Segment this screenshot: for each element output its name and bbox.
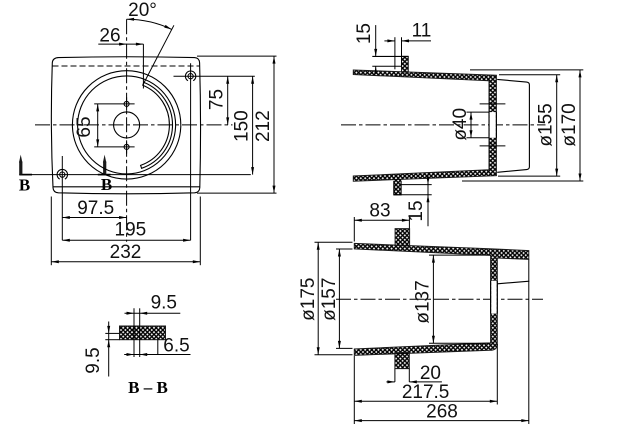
svg-text:ø40: ø40 (450, 108, 471, 141)
boss hole lines (394, 37, 396, 69)
horizontal centerline front view (35, 124, 233, 126)
wall hole gap bottom view (491, 281, 497, 314)
dimension o157 (336, 248, 353, 250)
B-B left extension lines (105, 332, 119, 334)
taper line (497, 281, 529, 284)
dimension 83 (354, 219, 409, 221)
corner hole top-right (188, 74, 193, 79)
top right view centerline (341, 124, 546, 126)
front view outline (51, 57, 200, 194)
svg-text:26: 26 (99, 25, 120, 46)
B-B slot lines (133, 308, 135, 357)
svg-text:ø157: ø157 (319, 278, 340, 321)
bottom right view centerline (336, 298, 543, 300)
wall hole gap (490, 112, 496, 138)
svg-text:65: 65 (74, 116, 95, 137)
dimension 11 (384, 40, 395, 42)
svg-text:195: 195 (115, 220, 147, 241)
inner boss circle (78, 76, 176, 174)
bottom face edge line (53, 186, 200, 188)
svg-text:B – B: B – B (128, 378, 168, 397)
dimension o170 (470, 69, 583, 71)
svg-text:15: 15 (406, 200, 427, 221)
top boss section (402, 56, 409, 72)
svg-text:11: 11 (412, 20, 432, 41)
svg-text:ø155: ø155 (536, 103, 557, 146)
dimension 268 (354, 420, 529, 422)
svg-text:ø137: ø137 (413, 280, 434, 323)
svg-text:20: 20 (420, 363, 441, 384)
small hole bottom (124, 144, 129, 149)
dimension 6.5 bottom (124, 354, 190, 356)
dimension 217.5 (354, 400, 497, 402)
dimension o40 (467, 111, 490, 113)
wall screw hole bottom (480, 145, 506, 147)
bottom boss section (394, 179, 401, 195)
svg-text:212: 212 (253, 110, 274, 142)
dimension o175 (315, 241, 353, 243)
dimension o155 (499, 74, 560, 76)
arc slot (141, 82, 173, 168)
svg-text:20°: 20° (128, 0, 157, 21)
bottom right view shell section (354, 243, 529, 355)
dimension o137 (429, 254, 491, 256)
section arrow B left (19, 155, 22, 163)
svg-text:83: 83 (369, 201, 390, 222)
svg-text:217.5: 217.5 (402, 382, 450, 403)
svg-text:268: 268 (426, 401, 458, 422)
svg-text:9.5: 9.5 (151, 293, 177, 314)
svg-text:15: 15 (354, 23, 375, 44)
dimension 20 (386, 381, 395, 383)
far end projection (497, 79, 529, 172)
dimension 9.5 top (125, 312, 181, 314)
bottom boss bottom view (395, 352, 409, 368)
svg-text:150: 150 (231, 110, 252, 142)
dimension 232 (51, 261, 200, 263)
far end edge extension (528, 259, 530, 424)
svg-text:6.5: 6.5 (163, 336, 189, 357)
top right view shell section (353, 70, 496, 181)
wall face extension (496, 344, 498, 405)
corner hole bottom-left (60, 172, 65, 177)
dimension 65 (97, 104, 99, 147)
section cut line B-B (19, 174, 251, 176)
top boss bottom view (395, 229, 410, 246)
dimension 150 (252, 76, 254, 174)
svg-text:ø175: ø175 (298, 278, 319, 321)
svg-text:75: 75 (206, 89, 227, 110)
section arrow B mid (103, 155, 106, 163)
dimension 97.5 (62, 217, 126, 219)
dimension 212 (273, 56, 275, 193)
svg-text:232: 232 (110, 242, 142, 263)
wall screw hole top (480, 103, 506, 105)
dimension 195 (62, 239, 190, 241)
svg-text:97.5: 97.5 (77, 198, 114, 219)
dimension 15 bottom (427, 174, 429, 226)
svg-text:B: B (19, 176, 30, 195)
svg-text:ø170: ø170 (559, 103, 580, 146)
dimension 75 (227, 76, 229, 125)
dimension 15 top (375, 25, 377, 56)
small hole top (124, 101, 129, 106)
dimension 9.5 left (108, 322, 110, 377)
vertical centerline front view (126, 19, 128, 242)
hidden edge dashed line (53, 65, 200, 67)
svg-text:9.5: 9.5 (83, 347, 104, 373)
center bore (114, 112, 140, 138)
svg-text:B: B (101, 175, 112, 194)
outer boss circle (72, 71, 180, 179)
dimension 26 (98, 43, 143, 45)
B-B section bar (120, 326, 166, 340)
